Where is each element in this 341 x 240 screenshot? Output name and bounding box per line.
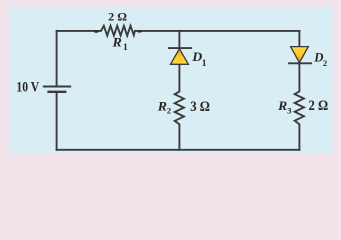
svg-text:2 Ω: 2 Ω (309, 98, 329, 114)
svg-text:2: 2 (167, 106, 171, 116)
svg-text:10 V: 10 V (16, 79, 39, 95)
svg-text:3 Ω: 3 Ω (190, 99, 210, 115)
svg-text:2: 2 (323, 58, 327, 68)
svg-text:3: 3 (287, 106, 291, 116)
svg-text:2 Ω: 2 Ω (108, 9, 127, 23)
svg-text:R: R (157, 100, 167, 114)
svg-text:1: 1 (202, 59, 207, 69)
svg-text:R: R (111, 35, 121, 49)
svg-text:1: 1 (123, 43, 128, 53)
svg-text:R: R (277, 99, 287, 113)
